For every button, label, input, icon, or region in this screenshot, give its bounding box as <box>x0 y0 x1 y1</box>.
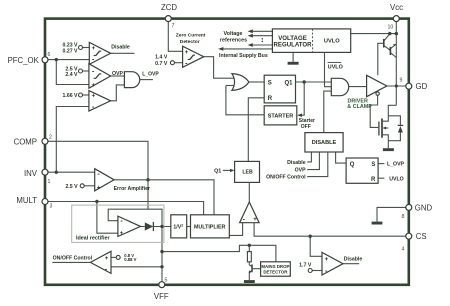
svg-text:0.27 V: 0.27 V <box>63 49 79 55</box>
svg-text:references: references <box>220 38 247 44</box>
svg-text:ON/OFF Control: ON/OFF Control <box>53 255 93 261</box>
svg-text:DISABLE: DISABLE <box>312 140 337 146</box>
svg-text:+: + <box>92 46 96 52</box>
svg-text:+: + <box>324 256 328 263</box>
svg-text:+: + <box>92 83 96 89</box>
svg-text:CS: CS <box>416 232 427 241</box>
svg-text:-: - <box>185 60 188 67</box>
svg-text:0.88 V: 0.88 V <box>124 257 136 262</box>
svg-text:3: 3 <box>50 204 53 210</box>
svg-text:DETECTOR: DETECTOR <box>263 270 288 275</box>
svg-text:STARTER: STARTER <box>268 114 294 120</box>
svg-text:-: - <box>105 266 108 273</box>
svg-text:Q: Q <box>350 162 355 168</box>
svg-text:L_OVP: L_OVP <box>142 71 159 77</box>
svg-text:Disable: Disable <box>111 44 130 50</box>
svg-text:PFC_OK: PFC_OK <box>8 56 40 65</box>
svg-text:10: 10 <box>388 25 394 31</box>
svg-text:7: 7 <box>172 23 175 29</box>
svg-text:Q1: Q1 <box>214 168 221 174</box>
svg-text:VFF: VFF <box>154 292 169 301</box>
svg-text:6: 6 <box>48 52 51 58</box>
svg-text:OVP: OVP <box>112 71 123 77</box>
svg-text:R: R <box>268 96 273 102</box>
svg-text:Q1: Q1 <box>284 81 293 87</box>
svg-text:1.66 V: 1.66 V <box>63 93 79 99</box>
svg-text:0.7 V: 0.7 V <box>155 61 168 67</box>
svg-text:2: 2 <box>49 135 52 141</box>
svg-text:S: S <box>371 162 375 168</box>
svg-text:+: + <box>105 256 109 262</box>
svg-text:ZCD: ZCD <box>161 3 177 12</box>
svg-text:2.4 V: 2.4 V <box>65 72 78 78</box>
svg-text:1.4 V: 1.4 V <box>155 55 168 61</box>
svg-text:2.5 V: 2.5 V <box>65 184 78 190</box>
svg-text:GND: GND <box>415 204 433 213</box>
svg-text:Vcc: Vcc <box>390 3 403 12</box>
svg-text:4: 4 <box>402 247 405 253</box>
svg-text:L_OVP: L_OVP <box>387 162 405 168</box>
svg-text:MAINS DROP: MAINS DROP <box>261 264 289 269</box>
svg-text:Internal Supply Bus: Internal Supply Bus <box>219 53 268 59</box>
svg-text:OFF: OFF <box>301 124 311 130</box>
svg-text:Starter: Starter <box>299 118 315 124</box>
svg-text:MULTIPLIER: MULTIPLIER <box>194 224 226 230</box>
svg-text:INV: INV <box>24 169 38 178</box>
svg-text:GD: GD <box>416 82 428 91</box>
svg-text:& CLAMP: & CLAMP <box>347 104 372 110</box>
svg-text:9: 9 <box>400 78 403 84</box>
svg-text:UVLO: UVLO <box>328 64 343 70</box>
svg-text:MULT: MULT <box>16 196 37 205</box>
svg-text:+: + <box>185 50 189 56</box>
svg-text:Zero Current: Zero Current <box>176 32 206 38</box>
svg-text:+: + <box>92 93 96 99</box>
svg-text:Disable: Disable <box>287 160 306 166</box>
svg-text:8: 8 <box>402 214 405 220</box>
svg-text:R: R <box>371 177 376 183</box>
svg-text:-: - <box>92 104 95 111</box>
svg-text:Ideal rectifier: Ideal rectifier <box>76 236 110 242</box>
svg-text:Error Amplifier: Error Amplifier <box>114 186 150 192</box>
svg-text:+: + <box>253 217 257 223</box>
svg-text:REGULATOR: REGULATOR <box>273 41 312 48</box>
svg-text:ON/OFF Control: ON/OFF Control <box>266 175 306 181</box>
svg-text:1: 1 <box>48 179 51 185</box>
svg-text:1.7 V: 1.7 V <box>299 263 312 269</box>
svg-text:S: S <box>268 81 272 87</box>
svg-text:Voltage: Voltage <box>223 31 242 37</box>
svg-text:Detector: Detector <box>180 39 200 45</box>
svg-text:1/V2: 1/V2 <box>173 223 183 230</box>
svg-text:Disable: Disable <box>344 256 363 262</box>
svg-text:5: 5 <box>165 278 168 284</box>
svg-text:LEB: LEB <box>242 170 253 176</box>
svg-text:-: - <box>92 68 95 75</box>
svg-text:+: + <box>97 185 101 191</box>
svg-text:-: - <box>92 57 95 64</box>
svg-text:UVLO: UVLO <box>324 38 340 44</box>
svg-text:UVLO: UVLO <box>389 176 403 182</box>
svg-text:OVP: OVP <box>295 168 306 174</box>
svg-text:+: + <box>120 231 124 237</box>
svg-text:COMP: COMP <box>14 138 37 147</box>
